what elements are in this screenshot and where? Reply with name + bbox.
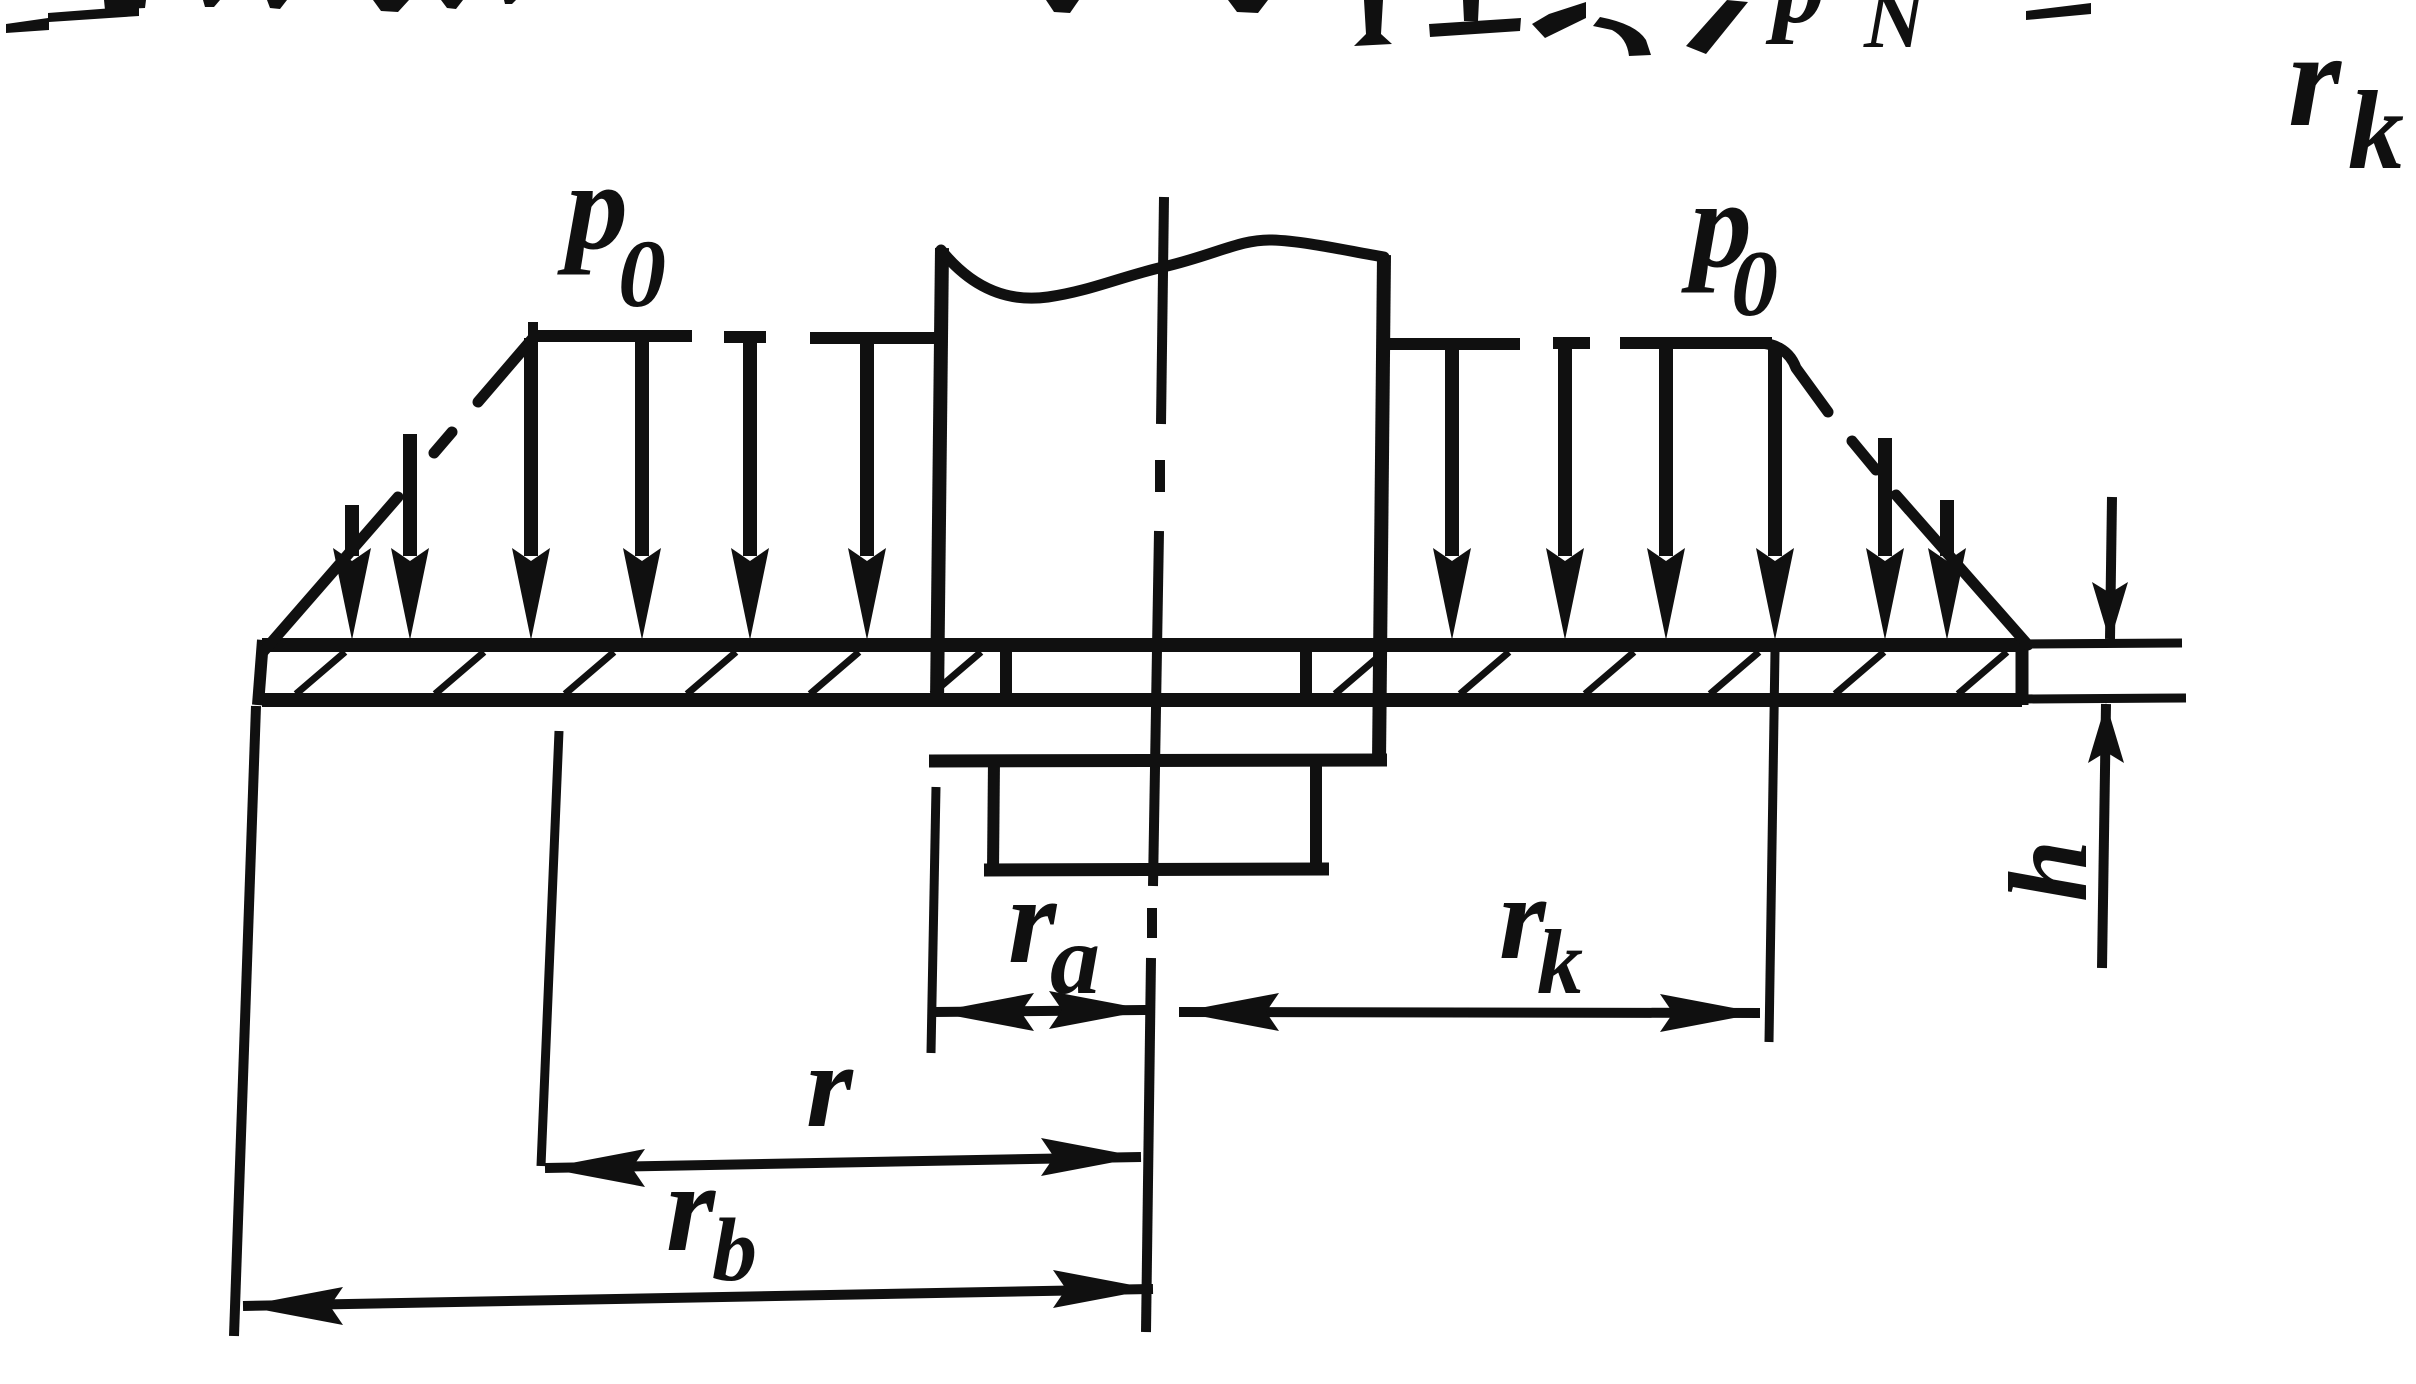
svg-text:r: r xyxy=(806,1019,854,1152)
svg-text:0: 0 xyxy=(618,220,666,327)
svg-text:p: p xyxy=(1765,0,1825,45)
svg-text:r: r xyxy=(2288,5,2342,155)
svg-text:0: 0 xyxy=(1731,232,1778,336)
svg-text:b: b xyxy=(712,1201,757,1300)
svg-text:a: a xyxy=(1050,904,1100,1015)
svg-text:k: k xyxy=(1537,911,1583,1013)
svg-text:N: N xyxy=(1863,0,1928,66)
svg-text:h: h xyxy=(1987,840,2111,902)
svg-text:r: r xyxy=(666,1139,716,1278)
svg-text:k: k xyxy=(2348,69,2404,193)
